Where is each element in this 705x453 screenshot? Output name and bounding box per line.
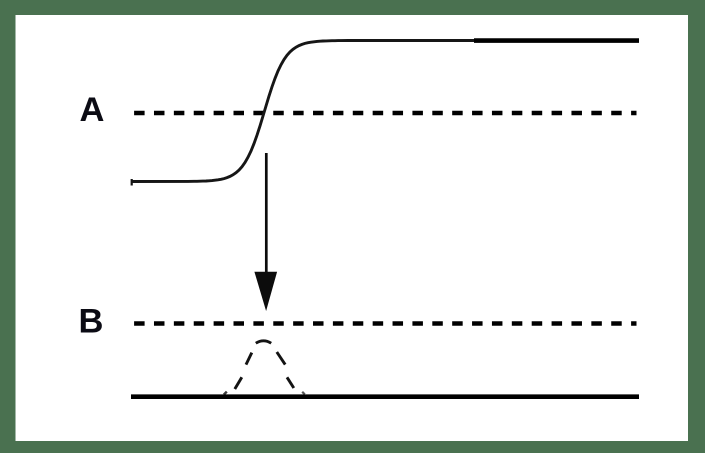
dashed peak lower-right dash bbox=[287, 377, 294, 388]
arrow shaft bbox=[265, 153, 268, 276]
top line thick segment bbox=[474, 38, 639, 43]
dashed peak upper-left dash bbox=[246, 353, 252, 365]
dashed peak lower-left dash bbox=[235, 377, 242, 389]
dashed peak apex cap bbox=[256, 341, 271, 343]
svg-text:B: B bbox=[79, 303, 104, 341]
dashed peak upper-right dash bbox=[277, 352, 285, 365]
sigmoid start tick bbox=[131, 179, 133, 186]
dashed peak left base tick bbox=[224, 392, 227, 395]
sigmoid curve bbox=[131, 41, 474, 182]
baseline bbox=[131, 394, 639, 399]
arrowhead bbox=[254, 272, 277, 311]
dotted threshold line A bbox=[134, 111, 636, 116]
svg-text:A: A bbox=[80, 91, 105, 129]
dashed peak right base tick bbox=[302, 392, 305, 395]
dotted threshold line B bbox=[134, 321, 636, 326]
